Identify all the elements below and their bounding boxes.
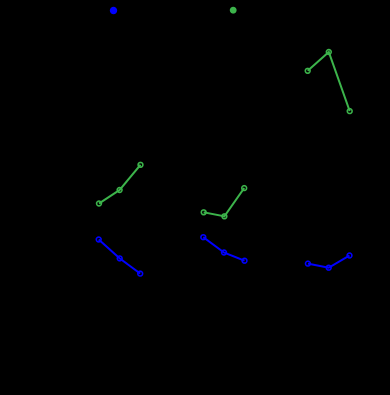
series panel2 blue markers <box>201 235 247 263</box>
series panel2 blue line <box>203 237 244 261</box>
series panel3 green markers <box>305 50 352 114</box>
legend marker blue <box>110 7 117 14</box>
series panel2 green markers <box>201 186 246 219</box>
series panel3 green line <box>308 52 350 111</box>
series panel3 blue markers <box>306 253 352 270</box>
series panel3 blue line <box>308 256 350 268</box>
series panel1 blue line <box>99 240 141 274</box>
series panel1 green markers <box>97 162 143 206</box>
legend marker green <box>230 7 237 14</box>
series panel1 green line <box>99 165 141 204</box>
series panel2 green line <box>204 188 245 216</box>
series panel1 blue markers <box>96 237 142 276</box>
